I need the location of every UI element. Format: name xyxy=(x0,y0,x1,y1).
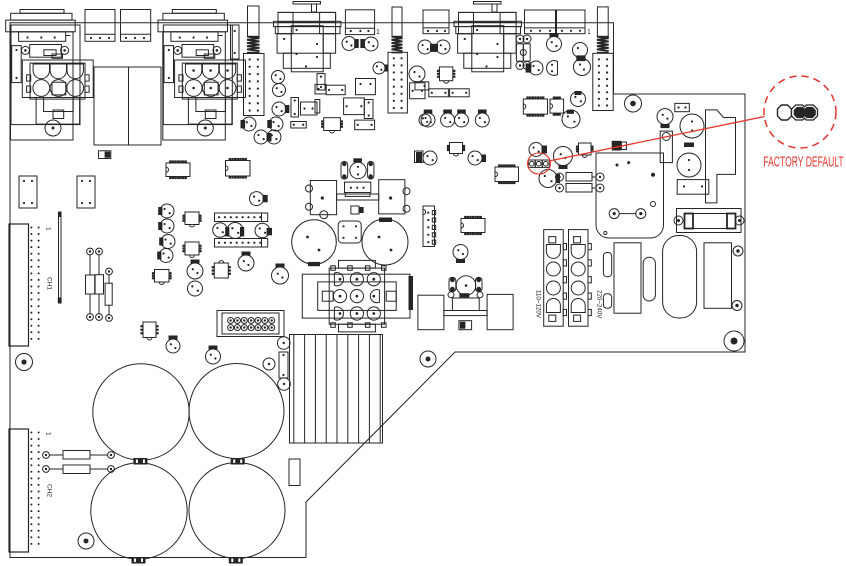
capacitor C35 (pill) xyxy=(643,257,655,301)
connector CH2 (edge) xyxy=(9,429,53,552)
transistor Q27 xyxy=(267,117,283,131)
op-amp U1 xyxy=(166,160,190,179)
callout circle around jumper J1 (red) xyxy=(528,153,551,174)
capacitor C4 (main filter) xyxy=(91,463,187,559)
solder pad (C4) xyxy=(132,557,146,564)
transistor Q20 xyxy=(455,110,469,128)
pad P1 xyxy=(277,337,290,350)
capacitor C30 xyxy=(677,143,701,178)
transistor Q25 xyxy=(539,170,560,188)
capacitor pair C38/C39 xyxy=(342,37,378,52)
capacitor C37 xyxy=(301,102,318,115)
svg-text:1: 1 xyxy=(45,227,52,231)
capacitor pair C22/C23 xyxy=(573,43,591,76)
capacitor C7 xyxy=(206,346,221,365)
capacitor C21 xyxy=(547,33,562,52)
capacitor C10 xyxy=(356,79,376,95)
relay K10 (mains) xyxy=(596,153,664,238)
capacitor C9 xyxy=(272,264,289,285)
transistor Q9 xyxy=(250,192,268,206)
resistor R19 xyxy=(450,89,470,97)
capacitor C6 xyxy=(166,336,180,354)
fuse holder F5 xyxy=(674,209,744,233)
resistor R25 xyxy=(291,98,299,118)
resistor R15 (pill) xyxy=(341,162,348,180)
op-amp U13 xyxy=(576,143,594,158)
capacitor C32 (pill) xyxy=(663,236,697,319)
transformer T4 (SMPS) xyxy=(704,243,732,308)
inductor L3 with fuse F3 xyxy=(593,7,613,111)
op-amp U6 xyxy=(212,261,231,279)
capacitor C3 (main filter) xyxy=(189,364,284,459)
capacitor C33 xyxy=(603,253,611,277)
transistor Q17 xyxy=(562,110,580,128)
resistor network RN1 xyxy=(215,213,268,222)
mounting hole MH4 xyxy=(625,95,642,112)
connector J5 (110-120V) xyxy=(535,230,567,327)
connector XLR1 (channel 1 input) xyxy=(6,10,94,141)
transistor Q1 xyxy=(158,204,174,218)
callout dashed circle (red) xyxy=(764,76,836,148)
jumper J1 (factory default, 3-pin) xyxy=(528,160,549,167)
transistor Q24 xyxy=(529,143,547,157)
capacitor C28 xyxy=(680,114,704,138)
capacitor C24 xyxy=(409,66,425,82)
resistor R16 (pill) xyxy=(368,162,374,180)
op-amp U15 xyxy=(226,158,251,179)
jumper icon cap on pins 2-3 (inside callout) xyxy=(792,105,818,120)
connector J2 (IDC-14) xyxy=(217,311,284,337)
transistor Q18 xyxy=(421,110,435,128)
pad P4 xyxy=(604,231,607,234)
transistor Q10 xyxy=(419,114,431,126)
op-amp U8 xyxy=(523,96,547,116)
relay K7 xyxy=(19,176,37,208)
transistor Q15 (TO-92) xyxy=(547,61,558,76)
capacitor C12 xyxy=(410,83,425,99)
capacitor C34 xyxy=(603,294,611,309)
resistor R20 xyxy=(556,173,605,182)
capacitor C16 (driver) xyxy=(292,220,337,266)
capacitor C29 xyxy=(660,131,672,163)
diode D11 xyxy=(415,151,424,163)
transistor Q2 xyxy=(158,219,174,233)
resistor R21 xyxy=(556,184,605,193)
relay K6 xyxy=(557,10,586,34)
regulator U2 xyxy=(182,212,201,227)
capacitor C26 xyxy=(453,245,468,264)
callout leader line (red) xyxy=(549,117,765,162)
resistor R8 xyxy=(326,85,345,95)
test point TP1 xyxy=(58,212,62,303)
voltage regulator assembly VR1 xyxy=(418,276,513,330)
relay K3 xyxy=(345,10,374,35)
transistor Q26 xyxy=(272,102,289,116)
mounting hole MH1 xyxy=(16,354,33,371)
capacitor C17 (driver) xyxy=(362,218,408,266)
capacitor C27 xyxy=(657,109,673,129)
diode D2 xyxy=(612,141,627,151)
svg-text:1: 1 xyxy=(376,29,380,36)
op-amp U14 xyxy=(461,216,485,235)
relay K4 xyxy=(423,10,449,34)
transistor Q23 xyxy=(468,151,486,165)
capacitor bank C100 (twin box) xyxy=(94,67,161,145)
transistor Q14 xyxy=(526,61,543,75)
resistor R4 (with leads) xyxy=(43,451,115,460)
op-amp U11 xyxy=(447,143,465,157)
heatsink bracket HS3 xyxy=(706,110,736,203)
pad P3 xyxy=(278,378,291,391)
op-amp U9 xyxy=(550,97,564,116)
mounting hole MH5 xyxy=(732,301,742,311)
resistor network RN2 xyxy=(215,239,268,248)
pin label 1 (relay K3) xyxy=(376,29,380,36)
resistor R17 xyxy=(415,82,429,90)
transistor Q11 xyxy=(373,62,388,74)
transistor Q4 xyxy=(157,249,173,263)
resistor R6 xyxy=(279,352,288,378)
regulator U3 xyxy=(182,242,201,258)
capacitor C18 (square film) xyxy=(338,221,361,243)
transistor Q5 xyxy=(188,281,203,296)
pad P2 xyxy=(263,358,275,370)
diode D1 xyxy=(351,206,364,214)
capacitor C25 xyxy=(554,147,573,170)
heatsink bar HS2 xyxy=(409,276,414,310)
label FACTORY DEFAULT (red) xyxy=(763,154,843,170)
resistor R24 xyxy=(677,180,709,195)
capacitor pair C19/C20 xyxy=(418,40,450,54)
regulator U5 xyxy=(140,322,158,340)
transistor Q7 xyxy=(227,223,244,239)
connector XLR2 (channel 2 input) xyxy=(158,10,246,141)
fuse holder F4 xyxy=(516,35,531,70)
resistor R7 xyxy=(289,459,300,486)
svg-text:CH1: CH1 xyxy=(46,277,53,290)
op-amp U12 xyxy=(495,164,519,184)
relay K9 (output relay) xyxy=(306,180,411,219)
capacitor C2 (main filter) xyxy=(93,364,189,460)
resistor R11 xyxy=(315,84,326,94)
transistor Q8 xyxy=(255,223,272,238)
transformer T3 (SMPS) xyxy=(614,243,641,313)
mounting hole MH6 xyxy=(724,331,744,351)
transistor Q19 xyxy=(441,110,455,128)
solder pad (C3/C5) xyxy=(231,458,245,465)
capacitor C36 xyxy=(241,117,257,131)
regulator U4 xyxy=(152,270,172,285)
relay K2 xyxy=(121,10,151,42)
resistor R9 xyxy=(364,100,373,119)
resistor R12 xyxy=(315,100,320,114)
transformer T1 (driver) xyxy=(274,2,341,72)
connector J3 (6-pin) xyxy=(423,206,436,247)
svg-text:220~240V: 220~240V xyxy=(596,290,603,319)
transistor Q12 xyxy=(272,71,285,84)
resistor R5 (with leads) xyxy=(43,465,115,474)
capacitor C13 (relay driver) xyxy=(350,158,366,178)
transformer T2 (driver) xyxy=(454,2,521,72)
transistor Q3 xyxy=(159,235,175,249)
transistor Q22 xyxy=(423,151,437,165)
transistor Q21 xyxy=(475,110,489,128)
mounting hole MH2 xyxy=(78,533,94,549)
inductor L2 with fuse F2 xyxy=(388,7,407,113)
op-amp U10 xyxy=(437,67,456,83)
capacitor C31 xyxy=(675,103,690,111)
capacitor C5 (main filter) xyxy=(189,463,285,559)
resistor R1 (vertical with leads) xyxy=(86,248,95,320)
capacitor C15 xyxy=(231,25,240,59)
svg-text:FACTORY DEFAULT: FACTORY DEFAULT xyxy=(763,154,843,170)
capacitor C8 xyxy=(238,252,254,272)
svg-text:110~120V: 110~120V xyxy=(535,290,542,319)
pin label 1 (relay K6) xyxy=(587,29,591,36)
jumper icon open pin (inside callout) xyxy=(778,105,792,120)
heatsink HS1 xyxy=(290,335,383,444)
resistor R2 (vertical with leads) xyxy=(95,248,103,320)
capacitor C11 xyxy=(344,98,365,115)
inductor L1 with fuse F1 xyxy=(244,6,265,116)
op-amp U7 xyxy=(321,118,343,133)
transistor Q6 xyxy=(213,223,230,238)
relay K1 xyxy=(85,10,115,42)
diode D10 xyxy=(99,151,111,159)
svg-text:1: 1 xyxy=(45,432,52,436)
solder pad (C5) xyxy=(229,557,243,564)
connector J6 (220-240V) xyxy=(569,230,603,327)
connector CH1 (edge) xyxy=(9,224,53,346)
mounting hole MH7 xyxy=(733,246,743,256)
resistor R26 xyxy=(291,122,306,129)
transistor Q16 xyxy=(571,91,586,107)
resistor R18 xyxy=(429,89,449,97)
resistor R14 xyxy=(317,74,325,90)
relay K8 xyxy=(77,176,95,208)
mounting hole MH3 xyxy=(420,351,436,367)
capacitor C1 xyxy=(187,260,203,280)
svg-text:CH2: CH2 xyxy=(46,484,53,497)
resistor R10 xyxy=(355,120,375,130)
svg-text:1: 1 xyxy=(587,29,591,36)
connector J4 (9-pin power) xyxy=(302,260,410,332)
resistor R3 (vertical with leads) xyxy=(105,268,112,321)
transistor Q13 xyxy=(273,84,286,97)
solder pad (C2/C4) xyxy=(133,458,147,465)
relay K5 xyxy=(525,10,556,34)
transistor pair Q28/Q29 xyxy=(254,130,281,144)
